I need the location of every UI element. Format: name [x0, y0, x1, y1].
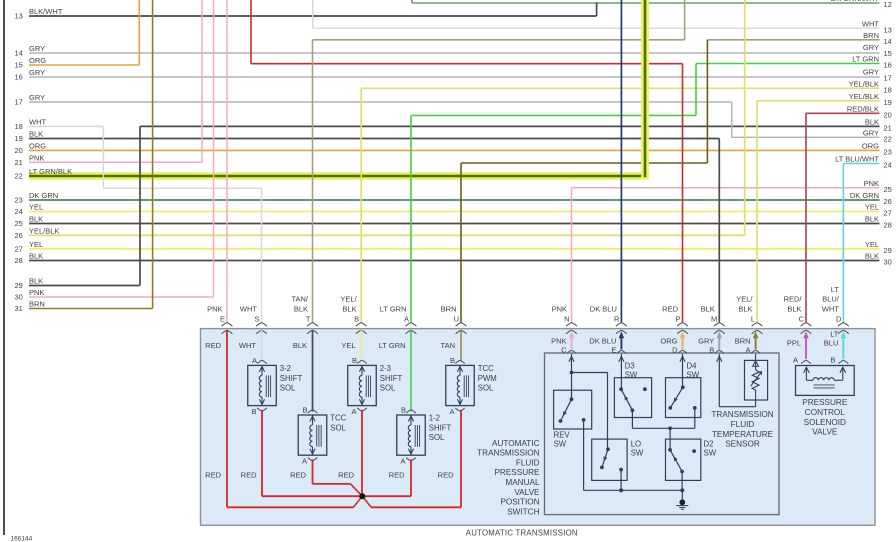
wire LO SW contact down: [620, 470, 622, 491]
switch LO SW: [592, 439, 644, 480]
svg-text:PNK: PNK: [29, 154, 44, 163]
svg-text:U: U: [454, 315, 459, 324]
wire 18 WHT horizontal seg2: [103, 187, 261, 189]
svg-text:WHT: WHT: [240, 305, 257, 314]
svg-text:SOLENOID: SOLENOID: [804, 418, 846, 427]
svg-text:26: 26: [15, 231, 23, 240]
svg-text:20: 20: [884, 110, 892, 119]
svg-text:TCC: TCC: [330, 414, 346, 423]
svg-text:PNK: PNK: [207, 305, 222, 314]
junction dot LO rail: [619, 488, 623, 492]
wire right 16 LT GRN horizontal: [696, 63, 880, 65]
wire RED from TCC PWM sol A down: [460, 410, 462, 508]
diagram left frame border: [3, 0, 5, 535]
wire D3/D4 contacts horizontal: [632, 427, 694, 429]
wire right 19 YEL/BLK horizontal (connector L): [757, 100, 880, 102]
svg-text:15: 15: [15, 61, 23, 70]
svg-text:C: C: [799, 315, 805, 324]
node T connector: [291, 295, 317, 334]
svg-text:SW: SW: [704, 449, 717, 458]
svg-text:T: T: [306, 315, 311, 324]
wire 13 BLK/WHT horizontal: [29, 15, 597, 17]
svg-text:RED: RED: [241, 471, 257, 480]
svg-text:28: 28: [884, 221, 892, 230]
node P connector: [662, 305, 688, 334]
svg-text:D3: D3: [625, 361, 635, 370]
node E connector: [207, 305, 232, 334]
wire 26 YEL/BLK horizontal: [29, 234, 745, 236]
wire D3 contact down: [631, 410, 633, 428]
wire junction to D2 SW pivot: [669, 428, 671, 450]
wire right 22 GRY horizontal: [732, 136, 880, 138]
wire LT GRN from connector A to 1-2 shift sol B: [410, 330, 412, 412]
svg-text:CONTROL: CONTROL: [805, 408, 845, 417]
svg-text:A: A: [793, 356, 798, 365]
svg-text:27: 27: [884, 209, 892, 218]
svg-text:RED: RED: [438, 471, 454, 480]
wire 15 ORG horizontal: [29, 64, 139, 66]
wire E to D3 SW pivot: [620, 354, 622, 389]
wire right 12 DK GRN/WHT horizontal: [412, 2, 880, 4]
svg-text:RED: RED: [205, 341, 221, 350]
svg-text:P: P: [675, 315, 680, 324]
svg-text:YEL/: YEL/: [340, 295, 357, 304]
switch D2 SW: [666, 439, 717, 480]
svg-text:SWITCH: SWITCH: [507, 507, 539, 516]
svg-text:BLU/: BLU/: [822, 295, 840, 304]
svg-text:ORG: ORG: [660, 337, 677, 346]
svg-text:LT GRN/BLK: LT GRN/BLK: [29, 167, 72, 176]
solenoid 3-2 SHIFT SOL: [248, 356, 303, 416]
svg-text:S: S: [254, 315, 259, 324]
svg-text:B: B: [709, 346, 714, 355]
svg-text:LT: LT: [831, 285, 840, 294]
wire D4 right contact down: [694, 408, 696, 428]
svg-text:BLK: BLK: [294, 305, 308, 314]
svg-text:PNK: PNK: [864, 179, 879, 188]
svg-text:16: 16: [15, 73, 23, 82]
connector M BLK vertical: [718, 139, 720, 323]
wire 22 LT GRN/BLK thick vertical: [641, 0, 649, 179]
wire ground rail: [584, 489, 683, 491]
svg-text:BLK: BLK: [865, 118, 879, 127]
svg-text:B: B: [251, 407, 256, 416]
wire 17 GRY step vertical: [731, 102, 733, 137]
svg-text:22: 22: [15, 172, 23, 181]
svg-text:AUTOMATIC: AUTOMATIC: [492, 439, 540, 448]
label TRANSMISSION FLUID TEMPERATURE SENSOR: [711, 410, 773, 448]
svg-text:ORG: ORG: [29, 142, 46, 151]
junction dot D2 rail: [680, 488, 684, 492]
node C connector: [784, 295, 812, 334]
wire BRN horizontal (connector U): [461, 162, 707, 164]
wire 21 PNK vertical: [201, 0, 203, 162]
svg-text:WHT: WHT: [239, 341, 256, 350]
svg-text:TRANSMISSION: TRANSMISSION: [477, 449, 539, 458]
svg-text:21: 21: [15, 158, 23, 167]
svg-text:A: A: [302, 457, 307, 466]
svg-text:26: 26: [884, 197, 892, 206]
svg-text:14: 14: [884, 37, 892, 46]
wire WHT from connector S to 3-2 shift sol A: [261, 330, 263, 362]
wire 26 YEL/BLK vertical: [744, 0, 746, 235]
svg-text:DK GRN/WHT: DK GRN/WHT: [831, 0, 880, 3]
svg-text:B: B: [354, 315, 359, 324]
label PRESSURE CONTROL SOLENOID VALVE: [802, 398, 848, 436]
svg-text:RED: RED: [338, 471, 354, 480]
connector S WHT vertical: [261, 188, 263, 322]
wire 25 BLK horizontal (to right 28): [29, 223, 880, 225]
svg-text:TEMPERATURE: TEMPERATURE: [712, 430, 774, 439]
wire 31 BRN horizontal: [29, 308, 153, 310]
wire RED junction to 1-2 sol A: [362, 495, 411, 497]
node N connector: [552, 305, 577, 334]
wire down to LO SW pivot: [607, 373, 609, 450]
svg-text:A: A: [746, 346, 751, 355]
svg-text:28: 28: [15, 256, 23, 265]
svg-text:22: 22: [884, 134, 892, 143]
svg-text:LO: LO: [631, 439, 641, 448]
svg-text:17: 17: [15, 98, 23, 107]
svg-text:BLK: BLK: [738, 305, 752, 314]
node B inner connector: [824, 329, 848, 364]
wire RED TCC A horizontal: [313, 483, 351, 485]
connector N PNK vertical: [571, 188, 573, 323]
svg-text:BLK/WHT: BLK/WHT: [29, 7, 63, 16]
svg-text:RED/: RED/: [784, 295, 803, 304]
svg-text:SW: SW: [631, 449, 644, 458]
svg-text:SHIFT: SHIFT: [380, 374, 403, 383]
wire RED from 3-2 sol B down: [261, 410, 263, 496]
svg-text:BLK: BLK: [701, 305, 715, 314]
svg-text:BLK: BLK: [293, 341, 307, 350]
svg-text:19: 19: [884, 98, 892, 107]
wire LT GRN step vertical: [695, 64, 697, 116]
svg-text:29: 29: [15, 281, 23, 290]
node A inner connector: [735, 331, 761, 354]
svg-text:BRN: BRN: [863, 31, 879, 40]
automatic transmission fluid pressure manual valve position switch box: [545, 353, 780, 515]
connector D LT BLU/WHT vertical: [842, 164, 844, 323]
svg-text:YEL: YEL: [341, 341, 355, 350]
svg-text:GRY: GRY: [863, 129, 879, 138]
svg-text:TRANSMISSION: TRANSMISSION: [711, 410, 773, 419]
svg-text:AUTOMATIC TRANSMISSION: AUTOMATIC TRANSMISSION: [466, 529, 578, 538]
wire 20 ORG horizontal (to right 23 ORG): [29, 149, 880, 151]
svg-text:B: B: [450, 356, 455, 365]
svg-text:SOL: SOL: [330, 423, 346, 432]
svg-text:24: 24: [15, 207, 23, 216]
wire RED 3-2 B to junction: [262, 495, 362, 497]
svg-text:TAN: TAN: [441, 341, 455, 350]
wire right 14 BRN vertical: [684, 0, 686, 40]
svg-text:TAN/: TAN/: [291, 295, 308, 304]
wire 28 BLK horizontal (to right 30): [29, 260, 880, 262]
svg-text:E: E: [220, 315, 225, 324]
svg-text:LT GRN: LT GRN: [852, 55, 879, 64]
solenoid TCC PWM SOL: [446, 356, 497, 416]
svg-text:PRESSURE: PRESSURE: [802, 398, 848, 407]
left wire-number column labels: [15, 7, 73, 313]
svg-text:BLK: BLK: [29, 252, 43, 261]
svg-text:N: N: [564, 315, 569, 324]
svg-text:21: 21: [884, 124, 892, 133]
wire 31 BRN vertical: [152, 0, 154, 309]
wire 13 BLK/WHT vertical: [596, 3, 598, 17]
svg-text:SW: SW: [554, 440, 567, 449]
wire RED from TCC sol A down: [312, 459, 314, 484]
svg-text:LT BLU/WHT: LT BLU/WHT: [835, 155, 879, 164]
wire 27 YEL horizontal (to right 29): [29, 248, 880, 250]
wire sensor bottom horizontal: [719, 406, 755, 408]
svg-text:24: 24: [884, 161, 892, 170]
svg-text:PWM: PWM: [478, 374, 497, 383]
svg-text:B: B: [830, 356, 835, 365]
wire right 14 BRN horizontal right seg: [707, 39, 879, 41]
svg-text:WHT: WHT: [822, 305, 839, 314]
svg-text:M: M: [711, 315, 717, 324]
svg-text:PNK: PNK: [29, 288, 44, 297]
svg-text:DK GRN: DK GRN: [29, 191, 58, 200]
svg-text:POSITION: POSITION: [500, 498, 539, 507]
svg-text:SOL: SOL: [429, 433, 445, 442]
connector A LT GRN vertical: [410, 115, 412, 322]
node B inner connector: [698, 331, 724, 354]
svg-text:SHIFT: SHIFT: [429, 423, 452, 432]
svg-text:20: 20: [15, 146, 23, 155]
svg-text:2-3: 2-3: [380, 364, 391, 373]
svg-text:19: 19: [15, 134, 23, 143]
wire right 13 WHT horizontal: [313, 27, 880, 29]
wire RED horizontal (to connector P): [251, 63, 683, 65]
svg-text:25: 25: [15, 219, 23, 228]
svg-text:C: C: [561, 346, 567, 355]
wire RED vertical upper: [250, 0, 252, 64]
node L connector: [736, 295, 762, 334]
svg-text:BLK: BLK: [343, 305, 357, 314]
svg-text:BLK: BLK: [787, 305, 801, 314]
svg-text:BRN: BRN: [441, 305, 457, 314]
node A inner connector: [787, 331, 811, 364]
svg-text:FLUID: FLUID: [516, 458, 540, 467]
svg-text:15: 15: [884, 49, 892, 58]
svg-text:R: R: [614, 315, 620, 324]
svg-text:RED/BLK: RED/BLK: [847, 105, 879, 114]
svg-text:RED: RED: [389, 471, 405, 480]
svg-text:TCC: TCC: [478, 364, 494, 373]
svg-text:WHT: WHT: [29, 118, 46, 127]
wire 17 GRY horizontal: [29, 101, 732, 103]
wire BLK from connector T to TCC sol B: [312, 330, 314, 412]
svg-text:BRN: BRN: [29, 300, 45, 309]
wire YEL from connector B to 2-3 shift sol B: [361, 330, 363, 362]
node C inner connector: [551, 331, 576, 354]
svg-text:DK BLU: DK BLU: [589, 337, 616, 346]
wire RED from 1-2 sol A down: [410, 459, 412, 496]
wire RED bottom rail left: [227, 506, 353, 508]
wire 22 LT GRN/BLK thick horizontal: [29, 172, 648, 180]
svg-text:SOL: SOL: [380, 384, 396, 393]
svg-text:YEL: YEL: [29, 240, 43, 249]
wire 16 GRY horizontal (to right 17 GRY): [29, 76, 880, 78]
svg-text:PNK: PNK: [552, 305, 567, 314]
wire C branch to LO SW: [572, 372, 608, 374]
svg-text:30: 30: [884, 258, 892, 267]
svg-text:RED: RED: [205, 471, 221, 480]
node R connector: [590, 305, 627, 334]
wire right 13 WHT vertical: [312, 0, 314, 28]
svg-text:SHIFT: SHIFT: [280, 374, 303, 383]
svg-text:13: 13: [884, 25, 892, 34]
svg-text:WHT: WHT: [862, 19, 879, 28]
wire RED bottom rail right: [371, 506, 461, 508]
wire D to D4 SW pivot: [682, 354, 684, 387]
right wire-number column labels: [831, 0, 892, 267]
junction dot RED: [359, 493, 365, 499]
wire right 24 LT BLU/WHT horizontal (connector D): [843, 163, 879, 165]
transmission fluid temperature sensor: [745, 354, 768, 407]
wire 24 YEL horizontal (to right 27): [29, 211, 880, 213]
svg-text:BLK: BLK: [865, 215, 879, 224]
node M connector: [701, 305, 725, 334]
svg-text:SENSOR: SENSOR: [725, 440, 760, 449]
svg-text:B: B: [401, 405, 406, 414]
svg-text:1-2: 1-2: [429, 414, 440, 423]
svg-text:YEL/: YEL/: [736, 295, 753, 304]
svg-text:LT GRN: LT GRN: [379, 341, 406, 350]
svg-text:BLK: BLK: [29, 130, 43, 139]
wire right 14 BRN horizontal seg to connector T: [313, 39, 685, 41]
svg-text:REV: REV: [554, 430, 571, 439]
svg-text:A: A: [404, 315, 409, 324]
wire 21 PNK horizontal: [29, 161, 202, 163]
svg-text:GRY: GRY: [29, 44, 45, 53]
connector B YEL/BLK vertical: [360, 88, 362, 322]
node B connector: [340, 295, 366, 334]
svg-text:SOL: SOL: [478, 384, 494, 393]
svg-text:YEL: YEL: [865, 240, 879, 249]
svg-text:LT GRN: LT GRN: [380, 305, 407, 314]
svg-text:YEL/BLK: YEL/BLK: [29, 227, 59, 236]
ground: [676, 490, 688, 509]
svg-text:23: 23: [15, 196, 23, 205]
label AUTOMATIC TRANSMISSION FLUID PRESSURE MANUAL VALVE POSITION SWITCH: [477, 439, 540, 517]
svg-text:YEL: YEL: [865, 203, 879, 212]
svg-text:ORG: ORG: [29, 56, 46, 65]
node A connector: [380, 305, 417, 334]
wire 19 BLK horizontal (to connector M): [29, 138, 719, 140]
svg-text:VALVE: VALVE: [812, 428, 838, 437]
svg-text:3-2: 3-2: [280, 364, 291, 373]
svg-text:12: 12: [884, 0, 892, 9]
svg-text:BRN: BRN: [735, 337, 751, 346]
node C branch dot: [570, 371, 574, 375]
connector U BRN vertical: [460, 163, 462, 323]
svg-text:18: 18: [884, 85, 892, 94]
wire 30 PNK horizontal: [29, 296, 214, 298]
svg-text:YEL/BLK: YEL/BLK: [849, 92, 879, 101]
connector T TAN/BLK vertical: [312, 40, 314, 323]
svg-text:D4: D4: [687, 361, 698, 370]
svg-text:GRY: GRY: [863, 43, 879, 52]
svg-text:SW: SW: [625, 371, 638, 380]
svg-text:D: D: [836, 315, 842, 324]
node U connector: [441, 305, 467, 334]
svg-text:PRESSURE: PRESSURE: [494, 468, 540, 477]
svg-text:29: 29: [884, 246, 892, 255]
svg-text:GRY: GRY: [698, 337, 714, 346]
switch D4 SW: [666, 361, 701, 417]
svg-text:GRY: GRY: [29, 93, 45, 102]
svg-text:A: A: [400, 457, 405, 466]
wire right 12 vertical stub: [411, 0, 413, 3]
svg-text:27: 27: [15, 244, 23, 253]
node S connector: [240, 305, 267, 334]
svg-text:D2: D2: [704, 439, 714, 448]
node E inner connector: [589, 331, 626, 354]
wire 29 BLK upper horizontal (to right 21 BLK): [140, 125, 880, 127]
svg-text:LT: LT: [830, 329, 839, 338]
svg-text:RED: RED: [290, 471, 306, 480]
connector R DK BLU vertical: [620, 0, 622, 323]
svg-text:YEL: YEL: [29, 203, 43, 212]
wire C to REV SW pivot: [571, 354, 573, 399]
svg-text:A: A: [351, 407, 356, 416]
wire 23 DK GRN horizontal (to right 26): [29, 199, 880, 201]
wire RED from 2-3 sol A to junction: [361, 410, 363, 496]
svg-text:18: 18: [15, 122, 23, 131]
svg-text:SW: SW: [687, 371, 700, 380]
svg-text:PNK: PNK: [551, 337, 566, 346]
svg-text:MANUAL: MANUAL: [505, 478, 540, 487]
svg-text:13: 13: [15, 12, 23, 21]
wire RED from connector E down: [226, 330, 228, 507]
wire BRN vertical (right 14 to U path): [706, 40, 708, 163]
svg-text:16: 16: [884, 61, 892, 70]
svg-text:23: 23: [884, 148, 892, 157]
automatic transmission box: [201, 329, 876, 526]
wire 18 WHT vertical seg: [102, 126, 104, 188]
svg-text:SOL: SOL: [280, 384, 296, 393]
wire REV SW contact down: [583, 420, 585, 490]
wire D2 contact down: [681, 472, 683, 491]
svg-text:DK BLU: DK BLU: [590, 305, 617, 314]
svg-text:166144: 166144: [11, 536, 33, 542]
svg-text:31: 31: [15, 304, 23, 313]
svg-text:D: D: [672, 346, 678, 355]
wire 15 ORG vertical: [138, 0, 140, 65]
wire 29 BLK vertical: [139, 126, 141, 285]
svg-text:RED: RED: [662, 305, 678, 314]
svg-text:PPL: PPL: [787, 339, 801, 348]
svg-text:14: 14: [15, 49, 23, 58]
svg-text:GRY: GRY: [863, 68, 879, 77]
svg-text:DK GRN: DK GRN: [850, 191, 879, 200]
node D inner connector: [660, 331, 687, 354]
wire right 18 YEL/BLK horizontal (connector B): [361, 87, 879, 89]
svg-text:17: 17: [884, 74, 892, 83]
wire right 25 PNK horizontal (connector N): [572, 187, 880, 189]
svg-text:BLU: BLU: [824, 339, 839, 348]
solenoid 1-2 SHIFT SOL: [397, 405, 452, 465]
svg-text:L: L: [751, 315, 755, 324]
connector L YEL/BLK vertical: [756, 101, 758, 323]
wire 29 BLK horizontal: [29, 285, 140, 287]
svg-text:BLK: BLK: [29, 215, 43, 224]
svg-text:ORG: ORG: [862, 142, 879, 151]
svg-text:B: B: [302, 405, 307, 414]
solenoid 2-3 SHIFT SOL: [348, 356, 403, 416]
